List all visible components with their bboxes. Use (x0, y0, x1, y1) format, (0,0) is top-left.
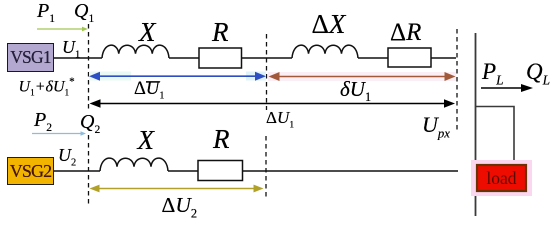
source VSG1 box (7, 43, 54, 72)
load bus vertical line (475, 33, 477, 216)
node boundary dashed line 3 (Upx node) (456, 29, 458, 130)
node boundary dashed line 4 (U2 node) (88, 135, 90, 205)
wire: R1 to inductor dX (242, 57, 293, 59)
resistor dR (388, 48, 431, 67)
halo of brown arrow (268, 72, 456, 81)
wire: X2 to R2 (168, 170, 198, 172)
resistor R1 (199, 48, 242, 68)
inductor dX (292, 45, 358, 58)
label QL (526, 60, 550, 87)
load box text (477, 165, 526, 191)
load box (477, 165, 526, 191)
label Q2 (80, 112, 100, 136)
wire: R2 to load bus (243, 170, 459, 172)
arrow deltaU1 (brown, double headed) (269, 72, 456, 81)
label DU1 (266, 109, 294, 130)
node U1 label (62, 38, 80, 61)
arrow PL QL load power flow (481, 84, 533, 92)
node U2 label (58, 146, 76, 169)
value label X2 (138, 127, 155, 154)
node Upx label (422, 114, 450, 140)
node boundary dashed line 2 (between R1 and dX) (266, 34, 268, 110)
arrow dU1bar (blue, double headed) (89, 72, 266, 81)
value label R2 (213, 126, 230, 153)
arrow DU1 total (black, double headed) (90, 99, 456, 107)
wire: dX to dR (358, 57, 388, 59)
inductor X2 (100, 158, 168, 171)
label deltaU1 (340, 79, 371, 103)
label U1+dU1* (19, 77, 75, 99)
wire: X1 to R1 (169, 57, 199, 59)
resistor R2 (198, 161, 243, 181)
node boundary dashed line 1 (U1 node) (88, 24, 90, 109)
halo of blue arrow (89, 72, 131, 81)
wire: bus to load (476, 107, 515, 166)
arrow DU2 (dark yellow, double headed) (90, 185, 264, 193)
value label R1 (212, 19, 229, 46)
arrow P1 Q1 power flow (green) (37, 27, 88, 32)
label DU2 (162, 195, 198, 220)
halo of load box (471, 160, 532, 196)
node boundary dashed line 5 (end of branch 2) (265, 136, 267, 199)
label Q1 (74, 1, 94, 25)
value label dR (390, 20, 421, 45)
label P2 (34, 110, 52, 134)
wire: VSG1 output to inductor X1 (54, 57, 102, 59)
wire: VSG2 output to inductor X2 (54, 170, 100, 172)
arrow P2 Q2 power flow (light blue) (32, 131, 86, 136)
inductor X1 (102, 45, 169, 58)
label PL (482, 60, 503, 87)
overline of dU1bar label (146, 81, 160, 83)
source VSG2 box (7, 157, 54, 185)
label dU1bar (134, 80, 165, 101)
value label dX (312, 11, 346, 38)
value label X1 (139, 19, 156, 46)
label P1 (37, 1, 55, 25)
wire: dR to node Upx (431, 57, 456, 59)
